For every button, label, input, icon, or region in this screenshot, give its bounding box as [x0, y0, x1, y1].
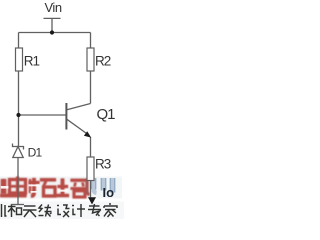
svg-text:Io: Io [103, 185, 115, 200]
svg-text:R3: R3 [95, 157, 111, 172]
svg-text:R1: R1 [24, 54, 40, 69]
svg-text:R2: R2 [95, 54, 111, 69]
svg-text:Q1: Q1 [97, 106, 116, 123]
svg-text:D1: D1 [28, 146, 43, 160]
svg-text:Vin: Vin [45, 0, 62, 15]
